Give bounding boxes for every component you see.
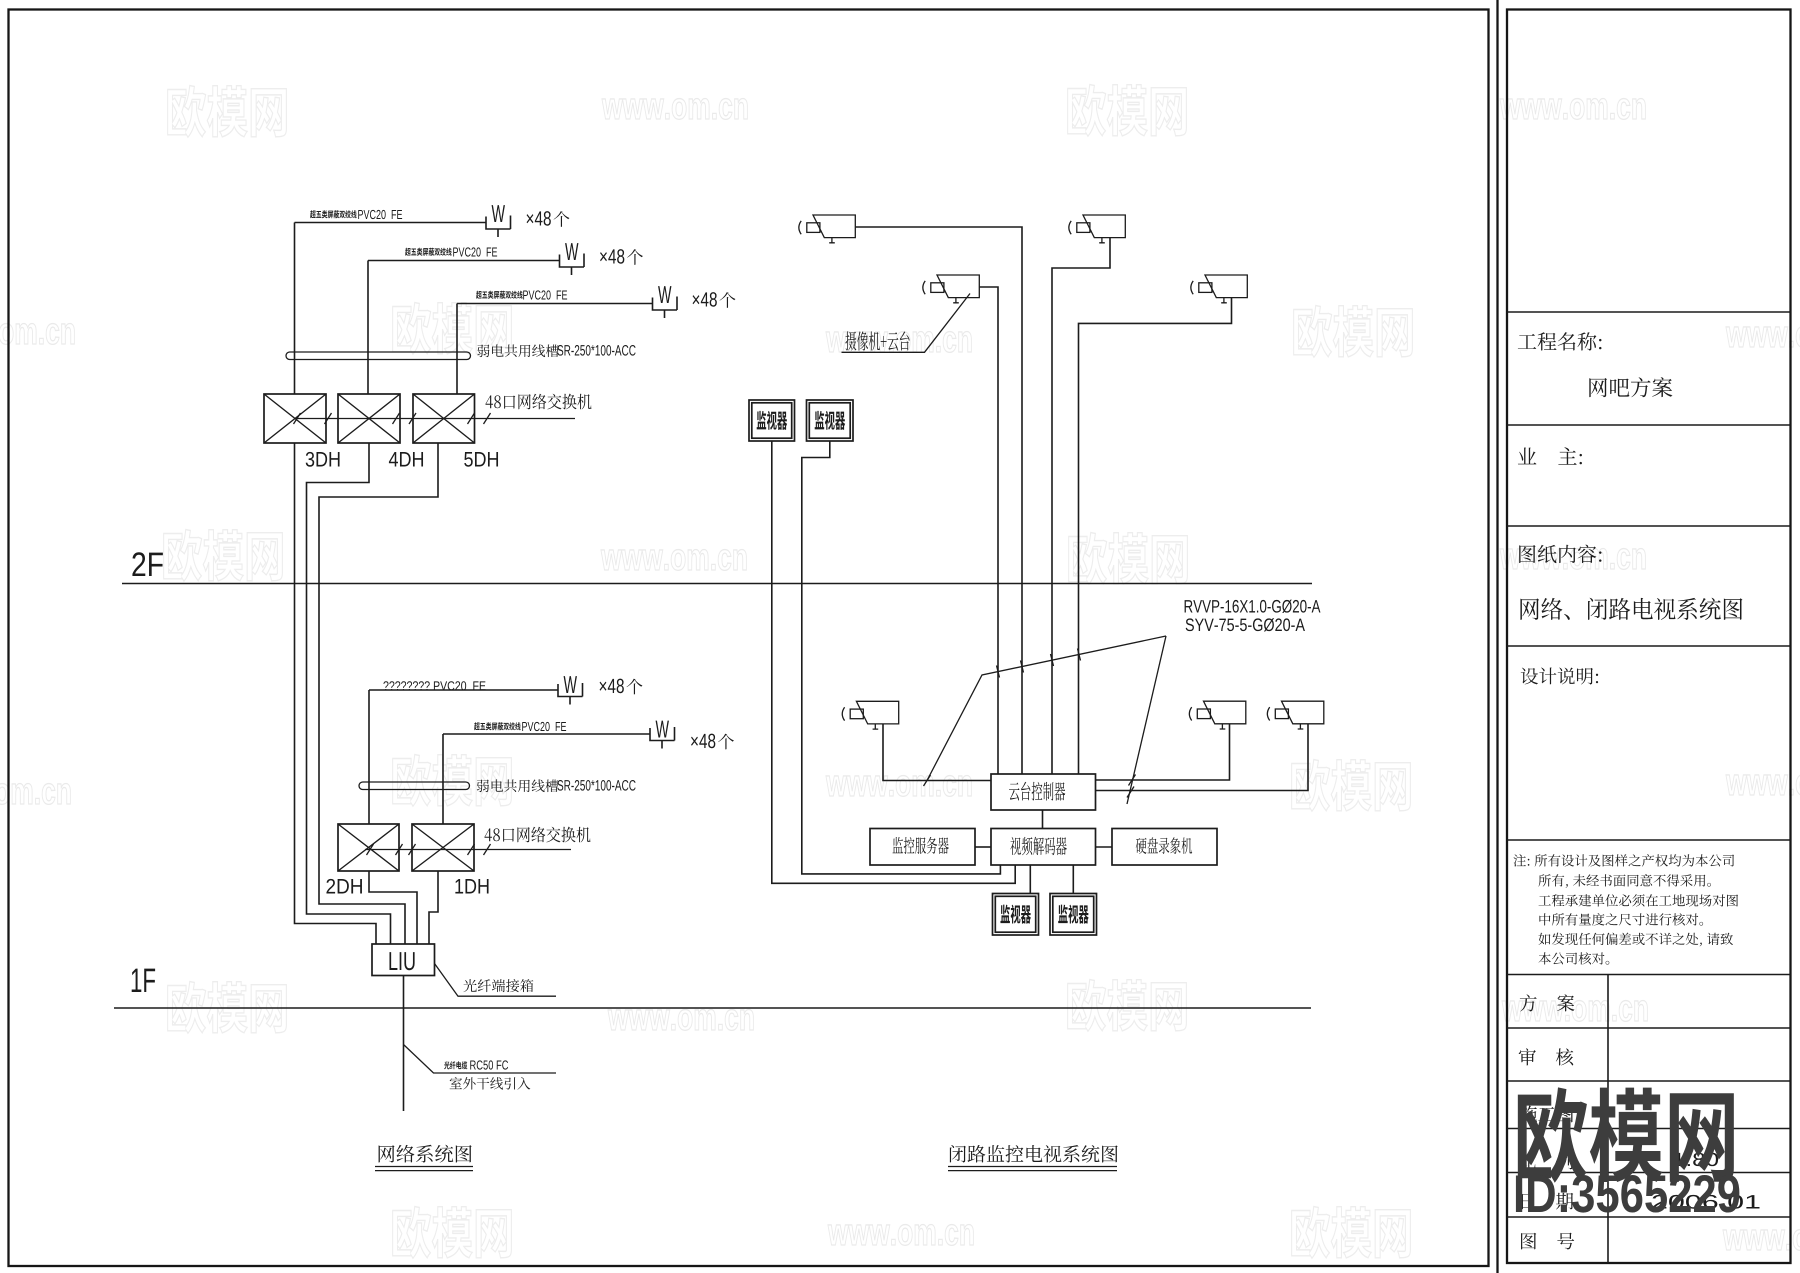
row: scheme <box>1520 994 1575 1011</box>
camera 6 <box>1189 701 1245 729</box>
label camera+PTZ <box>845 331 909 350</box>
x48 label 3 <box>693 292 717 307</box>
trunk from 3DH down to LIU <box>295 443 377 944</box>
wire W1 horizontal + riser to 3DH <box>295 223 487 395</box>
watermark row1 <box>168 86 287 138</box>
row: scale <box>1520 1152 1573 1169</box>
camera 5 <box>842 701 898 729</box>
label 48-port switch 1F <box>485 827 591 843</box>
caption: CCTV system diagram <box>950 1145 1118 1163</box>
tray label 2F <box>477 344 559 357</box>
label 5DH <box>464 452 498 467</box>
wire cam6 <box>1096 724 1230 780</box>
outlet W5 <box>650 727 675 749</box>
switch row line 1F <box>365 849 571 851</box>
cable label 4 (question marks) <box>383 681 485 690</box>
sheet content value <box>1520 598 1742 620</box>
switch 5DH <box>413 394 475 443</box>
wire WA horizontal + riser to 2DH <box>369 690 558 824</box>
monitor server box <box>870 829 975 866</box>
outlet W2 <box>560 254 585 276</box>
caption: network system diagram <box>379 1145 472 1163</box>
camera 4 <box>1191 275 1247 303</box>
PTZ to decoder wire <box>1042 810 1044 829</box>
decoder to monitor4 wire <box>1072 865 1074 894</box>
big watermark id <box>1516 1175 1739 1213</box>
watermark row4 <box>393 755 512 807</box>
outlet W1 <box>486 216 511 238</box>
floor line 2F <box>122 583 1312 585</box>
wire 1DH to LIU <box>429 871 438 944</box>
title block outer frame <box>1507 10 1791 1264</box>
row: sheet no <box>1521 1233 1574 1250</box>
big watermark logo <box>1518 1087 1734 1182</box>
watermark row6 <box>393 1207 512 1259</box>
monitor 3 <box>993 894 1039 936</box>
cable label 2 <box>405 248 452 256</box>
camera 3 <box>923 275 979 303</box>
leader line crossing trunks <box>927 636 1166 781</box>
monitor 2 <box>807 400 854 441</box>
decoder to monitor3 wire <box>1029 865 1031 894</box>
leader line crossing right wires <box>1127 636 1166 804</box>
x48 label 2 <box>600 249 624 264</box>
x48 label 1 <box>527 211 551 226</box>
switch 1DH <box>412 824 474 871</box>
wire cam4 trunk <box>1079 298 1232 774</box>
cable label 3 <box>476 291 523 299</box>
wire WB horizontal + riser to 1DH <box>443 734 650 824</box>
row: date <box>1522 1193 1574 1210</box>
switch 2DH <box>338 824 399 871</box>
wire monitor2 <box>802 441 1001 874</box>
label 48-port switch 2F <box>486 394 592 410</box>
watermark row5 <box>168 982 287 1034</box>
title block vertical divider <box>1607 975 1609 1264</box>
watermark row3 <box>164 530 283 582</box>
cable label 1 <box>310 210 357 218</box>
project name value <box>1589 377 1672 397</box>
wire 2DH to LIU <box>369 871 417 944</box>
label 3DH <box>306 452 340 467</box>
tray label 1F <box>477 779 559 792</box>
wire W2 horizontal + riser to 4DH <box>368 261 560 395</box>
wire cam5 <box>883 724 991 781</box>
trunk from 5DH down to LIU <box>319 443 438 944</box>
cable spec labels RVVP/SYV <box>1185 600 1321 613</box>
LIU fiber box <box>372 944 435 976</box>
decoder-recorder wire <box>1096 846 1113 848</box>
watermark row2 <box>393 303 512 355</box>
label 2DH <box>326 879 361 894</box>
cable tray 2F <box>286 352 471 360</box>
video decoder box <box>991 829 1096 866</box>
notes paragraph <box>1514 854 1735 866</box>
server-decoder wire <box>975 846 991 848</box>
HDD recorder box <box>1112 829 1217 866</box>
monitor 1 <box>749 400 795 441</box>
outlet W4 <box>558 683 583 705</box>
LIU drop wire <box>403 976 405 1112</box>
switch 3DH <box>264 394 326 443</box>
row: review <box>1519 1048 1574 1065</box>
leader: fiber terminal box <box>435 964 557 997</box>
trunk from 4DH down to LIU <box>307 443 391 944</box>
separator line full height <box>1496 0 1498 1273</box>
outlet W3 <box>653 297 678 319</box>
floor line 1F <box>114 1007 1311 1009</box>
label 4DH <box>389 452 423 466</box>
PTZ controller box <box>991 774 1096 810</box>
wire cam3 trunk <box>979 287 998 774</box>
camera 7 <box>1267 701 1323 729</box>
wire monitor1 <box>772 441 1015 883</box>
design notes label <box>1521 668 1598 685</box>
cable label 5 <box>474 722 521 730</box>
sheet content label <box>1519 545 1601 563</box>
owner label <box>1518 447 1582 464</box>
switch row line 2F <box>296 418 575 420</box>
x48 label 4 <box>600 679 624 694</box>
switch 4DH <box>338 394 400 443</box>
camera 1 <box>799 215 855 243</box>
wire cam1 trunk <box>855 227 1022 774</box>
leader: outdoor trunk lead-in <box>404 1045 557 1074</box>
wire W3 horizontal + riser to 5DH <box>457 304 653 395</box>
project name label <box>1518 332 1602 350</box>
row: construction dwg <box>1520 1106 1574 1123</box>
x48 label 5 <box>691 734 715 749</box>
label 1DH <box>455 879 488 893</box>
camera 2 <box>1069 215 1125 243</box>
title block dividers <box>1507 312 1791 1217</box>
monitor 4 <box>1050 894 1097 936</box>
cable tray 1F <box>359 782 470 790</box>
wire cam7 <box>1096 724 1309 791</box>
wire cam2 trunk <box>1052 238 1110 774</box>
